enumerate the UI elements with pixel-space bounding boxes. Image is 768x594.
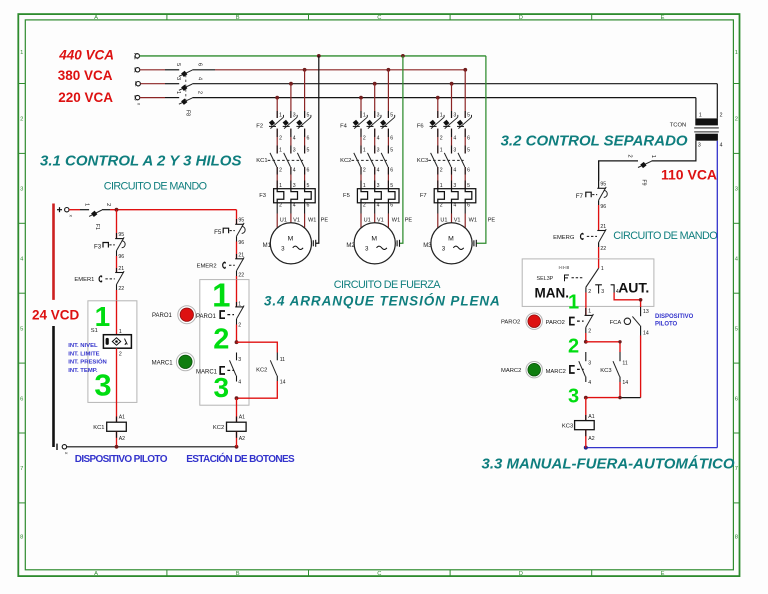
svg-text:PE: PE: [321, 218, 329, 224]
svg-text:2: 2: [363, 203, 366, 209]
svg-text:5: 5: [467, 148, 470, 154]
labels 1 3 5 contactor KC1: [279, 148, 309, 154]
svg-text:A: A: [94, 571, 98, 577]
PE connector M2: [397, 240, 399, 247]
svg-text:2: 2: [626, 155, 632, 158]
svg-text:1: 1: [175, 91, 181, 94]
svg-text:1: 1: [20, 50, 23, 56]
node L3-M1: [289, 82, 293, 86]
node L2-M2: [387, 68, 391, 72]
svg-text:3.4 ARRANQUE TENSIÓN PLENA: 3.4 ARRANQUE TENSIÓN PLENA: [264, 294, 501, 309]
wire into box2: [236, 280, 238, 307]
svg-text:KC2: KC2: [213, 425, 224, 431]
svg-text:B: B: [236, 15, 240, 21]
svg-text:3: 3: [453, 148, 456, 154]
svg-text:A2: A2: [119, 436, 125, 442]
svg-text:F4: F4: [340, 124, 348, 130]
svg-text:1: 1: [440, 112, 443, 118]
svg-text:5: 5: [390, 148, 393, 154]
svg-text:2: 2: [588, 328, 591, 334]
svg-text:22: 22: [238, 273, 244, 279]
pin 3 selector: [595, 285, 602, 294]
pushbutton PARO1 pilot: [178, 306, 196, 324]
svg-text:7: 7: [20, 466, 23, 472]
node L3-M3: [450, 82, 454, 86]
svg-text:4: 4: [377, 203, 380, 209]
svg-text:B: B: [236, 571, 240, 577]
border column ticks: [167, 14, 592, 576]
svg-text:MAN.: MAN.: [535, 285, 570, 300]
svg-text:4: 4: [588, 380, 591, 386]
svg-text:110 VCA: 110 VCA: [661, 166, 717, 182]
thermal overload contact F7: [586, 187, 607, 205]
node KC2 A2: [235, 445, 239, 449]
svg-text:CIRCUITO DE MANDO: CIRCUITO DE MANDO: [104, 181, 207, 193]
pin 2 selector: [585, 287, 587, 292]
svg-text:2: 2: [238, 323, 241, 329]
svg-text:M1: M1: [263, 243, 272, 249]
svg-text:4: 4: [293, 167, 296, 173]
svg-text:3: 3: [281, 246, 285, 253]
svg-text:PARO1: PARO1: [196, 314, 217, 320]
svg-text:3: 3: [377, 148, 380, 154]
contactor contacts KC1: [268, 153, 305, 167]
svg-text:MARC2: MARC2: [546, 369, 566, 375]
svg-text:5: 5: [20, 326, 23, 332]
svg-text:1: 1: [363, 112, 366, 118]
svg-text:M3: M3: [423, 243, 432, 249]
svg-text:1: 1: [279, 112, 282, 118]
supply rail 24VCD positive: [52, 204, 55, 300]
svg-text:3: 3: [601, 289, 604, 295]
svg-text:21: 21: [600, 224, 606, 230]
svg-text:22: 22: [600, 246, 606, 252]
svg-text:2: 2: [363, 167, 366, 173]
svg-text:A1: A1: [588, 414, 594, 420]
svg-text:2: 2: [440, 203, 443, 209]
svg-text:A1: A1: [239, 415, 245, 421]
wire selector pin2 down: [585, 293, 587, 316]
svg-text:PE: PE: [405, 218, 413, 224]
node pin4 corner: [639, 298, 643, 302]
svg-text:PARO2: PARO2: [546, 320, 565, 326]
svg-text:2: 2: [197, 91, 203, 94]
svg-text:96: 96: [238, 240, 244, 246]
svg-text:13: 13: [643, 309, 649, 315]
motor M3: [431, 223, 472, 264]
svg-text:INT. LIMITE: INT. LIMITE: [68, 351, 99, 357]
svg-text:D: D: [519, 571, 523, 577]
svg-text:6: 6: [390, 135, 393, 141]
wire PE drop M3: [476, 56, 486, 243]
svg-text:F1: F1: [94, 224, 100, 230]
limit switch FCA: [624, 307, 640, 330]
node L4-M1: [275, 96, 279, 100]
svg-text:PARO2: PARO2: [501, 320, 520, 326]
svg-text:6: 6: [307, 203, 310, 209]
wire KC3aux down: [619, 382, 621, 398]
NO contact MARC1: [220, 353, 236, 382]
svg-text:3: 3: [214, 372, 230, 403]
svg-text:AUT.: AUT.: [618, 279, 649, 295]
wire TCON pin4 blue down: [716, 141, 718, 448]
svg-text:KC2: KC2: [340, 158, 351, 164]
svg-text:1: 1: [601, 266, 604, 272]
contactor coil KC2: [227, 422, 247, 431]
border row ticks: [18, 84, 739, 503]
svg-text:7: 7: [735, 466, 738, 472]
wire node2 to KC2 branch: [237, 342, 278, 352]
svg-text:4: 4: [377, 135, 380, 141]
wire inside box S1: [116, 301, 118, 335]
labels 2 4 6 overload F3: [279, 203, 309, 209]
svg-text:A1: A1: [119, 415, 125, 421]
wire PE drop M2: [400, 56, 403, 243]
wire node2 to FCA branch: [586, 342, 620, 352]
svg-text:1: 1: [568, 291, 579, 313]
svg-text:2: 2: [279, 203, 282, 209]
NC contact PARO2: [570, 308, 594, 333]
svg-text:5: 5: [467, 112, 470, 118]
svg-text:96: 96: [600, 204, 606, 210]
svg-text:4: 4: [377, 167, 380, 173]
disconnect switch F8: [175, 63, 203, 116]
svg-text:INT. NIVEL: INT. NIVEL: [68, 343, 98, 349]
svg-text:MARC2: MARC2: [501, 368, 521, 374]
thermal overload F7: [434, 189, 476, 203]
svg-text:4: 4: [453, 167, 456, 173]
node control branch: [115, 208, 119, 212]
disconnect switch F1: [84, 203, 112, 230]
svg-text:6: 6: [467, 135, 470, 141]
svg-text:1: 1: [279, 148, 282, 154]
svg-text:A2: A2: [588, 436, 594, 442]
NC contact PARO1: [220, 302, 244, 325]
svg-text:ESTACIÓN DE BOTONES: ESTACIÓN DE BOTONES: [186, 452, 295, 465]
wire into selector pin1: [598, 259, 600, 268]
pushbutton PARO2 pilot light: [526, 313, 542, 329]
pin 4 selector: [611, 285, 615, 293]
NO contact KC3 aux: [613, 352, 620, 382]
svg-text:M: M: [288, 235, 294, 242]
svg-text:I-II-III: I-II-III: [559, 265, 570, 270]
svg-text:3.3 MANUAL-FUERA-AUTOMÁTICO: 3.3 MANUAL-FUERA-AUTOMÁTICO: [482, 456, 735, 473]
svg-text:2: 2: [440, 167, 443, 173]
labels INT sensors: [68, 343, 107, 374]
contactor contacts KC3: [428, 153, 465, 167]
svg-text:KC3: KC3: [562, 424, 573, 430]
supply rail negative: [52, 326, 55, 447]
svg-text:3: 3: [238, 357, 241, 363]
svg-text:96: 96: [118, 254, 124, 260]
svg-text:2: 2: [279, 167, 282, 173]
terminal labels U1 V1 W1 M3: [440, 218, 495, 224]
thermal contact F5: [223, 219, 245, 242]
wire bottom row3 black: [620, 397, 641, 399]
svg-text:EMERG: EMERG: [553, 235, 575, 241]
terminal labels U1 V1 W1 M1: [280, 218, 329, 224]
svg-text:2: 2: [363, 135, 366, 141]
motor branch M3 phase wires: [438, 70, 465, 228]
svg-text:8: 8: [20, 535, 23, 541]
node PE-M1: [317, 54, 321, 58]
svg-text:F5: F5: [343, 193, 350, 199]
wire 22 into box S1: [116, 290, 118, 335]
svg-text:4: 4: [720, 143, 723, 149]
svg-text:S1: S1: [91, 328, 98, 334]
svg-text:3: 3: [588, 360, 591, 366]
box estacion de botones: [200, 280, 249, 406]
svg-text:E: E: [661, 571, 665, 577]
wire PE drop M1: [316, 56, 319, 243]
selector switch SEL3P: [537, 265, 599, 287]
labels 2 4 6 breaker F4: [363, 135, 393, 141]
labels 1 3 5 contactor KC3: [440, 148, 470, 154]
wire L4 to transformer pin1: [695, 98, 697, 119]
labels 1 3 5 overload F3: [279, 183, 309, 189]
node L2-M3 end: [463, 68, 467, 72]
svg-text:5: 5: [735, 326, 738, 332]
svg-text:PE: PE: [488, 218, 496, 224]
motor branch M1 phase wires: [277, 70, 304, 228]
thermal contact F3: [103, 233, 125, 256]
wire F9 to control chain: [599, 161, 638, 181]
wire node3 to coil KC2: [236, 398, 238, 422]
NO contact KC2 aux: [270, 353, 277, 382]
svg-text:M2: M2: [346, 243, 355, 249]
wire 96-21 left: [116, 256, 118, 273]
emergency contact EMER2: [223, 254, 244, 276]
svg-text:4: 4: [293, 135, 296, 141]
wire selector pin4 to FCA: [614, 293, 641, 308]
svg-text:5: 5: [175, 63, 181, 66]
svg-text:A2: A2: [239, 436, 245, 442]
svg-text:MARC1: MARC1: [152, 360, 174, 366]
labels 2 4 6 overload F5: [363, 203, 393, 209]
svg-text:F5: F5: [214, 229, 222, 236]
wire PE bus green: [140, 55, 486, 57]
svg-text:1: 1: [95, 301, 111, 332]
wire 96-21 red: [598, 205, 600, 231]
PE connector M1: [313, 240, 315, 247]
disconnect switch F9: [626, 155, 656, 186]
emergency contact EMER1: [99, 268, 124, 290]
svg-text:KC3: KC3: [600, 368, 611, 374]
node 2 row: [584, 340, 588, 344]
labels 2 4 6 breaker F6: [440, 135, 470, 141]
svg-text:2: 2: [720, 112, 723, 118]
node L4-M2: [359, 96, 363, 100]
svg-text:4: 4: [453, 203, 456, 209]
labels 2 4 6 contactor KC1: [279, 167, 309, 173]
svg-text:EMER1: EMER1: [74, 277, 94, 283]
wire PARO1 to node2: [236, 325, 238, 343]
svg-text:3: 3: [735, 187, 738, 193]
svg-text:3: 3: [442, 246, 446, 253]
circuit breaker F2: [269, 115, 311, 129]
svg-text:2: 2: [105, 203, 111, 206]
svg-text:3: 3: [20, 187, 23, 193]
svg-text:6: 6: [20, 396, 23, 402]
svg-text:8: 8: [735, 535, 738, 541]
svg-text:1: 1: [84, 203, 90, 206]
svg-text:2: 2: [568, 336, 579, 358]
labels 2 4 6 contactor KC2: [363, 167, 393, 173]
svg-text:6: 6: [307, 135, 310, 141]
node PE-M2: [401, 54, 405, 58]
selector box: [522, 259, 654, 307]
svg-text:M: M: [448, 235, 454, 242]
svg-text:M: M: [371, 235, 377, 242]
svg-text:3: 3: [698, 143, 701, 149]
labels 2 4 6 breaker F2: [279, 135, 309, 141]
wire TCON pin3 to switch F9: [652, 141, 696, 161]
svg-text:F3: F3: [94, 243, 102, 250]
wire control right branch down: [236, 210, 238, 225]
svg-text:PARO1: PARO1: [152, 313, 173, 319]
svg-text:6: 6: [197, 63, 203, 66]
svg-text:1: 1: [735, 50, 738, 56]
svg-text:6: 6: [467, 167, 470, 173]
wire FCA 14: [640, 330, 642, 336]
svg-text:3: 3: [175, 77, 181, 80]
svg-text:5: 5: [390, 112, 393, 118]
svg-text:W1: W1: [308, 218, 316, 224]
svg-text:E: E: [661, 15, 665, 21]
svg-text:KC1: KC1: [256, 158, 267, 164]
PE connector M3: [474, 240, 476, 247]
svg-text:F2: F2: [256, 124, 263, 130]
emergency stop contact EMERG: [581, 229, 607, 247]
terminal minus 24V: [57, 444, 69, 455]
svg-text:4: 4: [293, 203, 296, 209]
pushbutton MARC2 pilot light: [526, 362, 542, 378]
labels 1 3 5 overload F5: [363, 183, 393, 189]
svg-text:21: 21: [238, 252, 244, 258]
svg-text:95: 95: [118, 232, 124, 238]
svg-text:4: 4: [453, 135, 456, 141]
svg-text:FCA: FCA: [610, 320, 622, 326]
NO contact MARC2: [570, 352, 586, 382]
svg-text:DISPOSITIVO PILOTO: DISPOSITIVO PILOTO: [75, 454, 168, 465]
wire KC2 to bottom: [236, 431, 238, 447]
svg-text:3: 3: [453, 112, 456, 118]
svg-text:11: 11: [622, 360, 627, 366]
transformer TCON: [670, 118, 719, 140]
svg-text:F8: F8: [185, 110, 191, 116]
svg-text:1: 1: [650, 155, 656, 158]
svg-text:2: 2: [119, 351, 122, 357]
contactor coil KC3: [575, 421, 595, 430]
svg-text:C: C: [377, 15, 381, 21]
wire L2 bus maroon: [140, 69, 165, 71]
terminal labels 1 3 5 breaker F2: [279, 112, 309, 118]
node row3 box2: [235, 396, 239, 400]
wire terminal to F1: [69, 209, 80, 211]
svg-text:22: 22: [118, 286, 124, 292]
svg-text:F3: F3: [259, 193, 266, 199]
circuit breaker F4: [353, 115, 395, 129]
wire L3 bus: [140, 83, 165, 85]
wire KC2aux to node3: [237, 381, 278, 398]
svg-text:A: A: [94, 15, 98, 21]
wire top control line: [110, 209, 237, 211]
svg-text:F7: F7: [420, 193, 427, 199]
wire F5-EMER2: [236, 242, 238, 259]
contactor coil KC1: [107, 422, 127, 431]
svg-text:6: 6: [390, 167, 393, 173]
svg-text:3.2 CONTROL SEPARADO: 3.2 CONTROL SEPARADO: [501, 132, 688, 149]
wire EMER2 to box: [236, 276, 238, 307]
svg-text:440 VCA: 440 VCA: [58, 48, 114, 63]
svg-text:INT. PRESIÓN: INT. PRESIÓN: [68, 358, 107, 366]
svg-text:6: 6: [735, 396, 738, 402]
svg-text:14: 14: [622, 380, 628, 386]
node L2-M1: [303, 68, 307, 72]
terminal labels 1 3 5 breaker F6: [440, 112, 470, 118]
wire L3 to transformer pin2: [716, 84, 718, 119]
svg-text:KC1: KC1: [93, 425, 104, 431]
svg-text:D: D: [519, 15, 523, 21]
svg-text:1: 1: [363, 148, 366, 154]
wire left chain upper: [116, 210, 118, 239]
labels 1 3 5 overload F7: [440, 183, 470, 189]
wire chain 3.2 upper: [598, 161, 600, 188]
wire 22 to selector: [598, 247, 600, 268]
svg-text:24 VCD: 24 VCD: [32, 307, 80, 322]
node L4-M3: [436, 96, 440, 100]
svg-text:14: 14: [643, 331, 649, 337]
svg-text:220 VCA: 220 VCA: [58, 90, 113, 105]
motor M1: [270, 223, 311, 264]
wire blue bottom: [586, 447, 718, 449]
wire KC3 to blue: [585, 430, 587, 448]
svg-text:95: 95: [238, 217, 244, 223]
labels 2 4 6 overload F7: [440, 203, 470, 209]
svg-text:3: 3: [377, 112, 380, 118]
svg-text:2: 2: [735, 117, 738, 123]
svg-text:CIRCUITO DE MANDO: CIRCUITO DE MANDO: [613, 230, 717, 242]
svg-text:6: 6: [467, 203, 470, 209]
node 3 row: [584, 396, 588, 400]
svg-text:2: 2: [588, 289, 591, 295]
node KC1 A2: [115, 445, 119, 449]
svg-text:3: 3: [293, 148, 296, 154]
thermal overload F3: [274, 189, 316, 203]
wire S1 to coil KC1: [116, 348, 118, 422]
labels 1 3 5 contactor KC2: [363, 148, 393, 154]
svg-text:SEL3P: SEL3P: [537, 276, 554, 282]
wire bottom return line: [67, 446, 237, 448]
svg-text:5: 5: [307, 148, 310, 154]
svg-text:4: 4: [197, 77, 203, 80]
wire bottom row3 red: [586, 397, 620, 399]
svg-text:380 VCA: 380 VCA: [58, 68, 113, 83]
wire KC1 to bottom line: [116, 431, 118, 447]
svg-text:21: 21: [118, 266, 124, 272]
svg-text:3: 3: [293, 112, 296, 118]
border row labels: [20, 50, 739, 541]
svg-text:DISPOSITIVO: DISPOSITIVO: [655, 314, 694, 320]
motor M2: [354, 223, 395, 264]
pushbutton MARC1 pilot: [176, 353, 194, 371]
wire node3 to coil KC3: [585, 398, 587, 421]
svg-text:F6: F6: [417, 124, 424, 130]
terminal labels U1 V1 W1 M2: [364, 218, 413, 224]
svg-text:14: 14: [280, 380, 286, 386]
svg-text:1: 1: [588, 309, 591, 315]
node L3-M2: [373, 82, 377, 86]
